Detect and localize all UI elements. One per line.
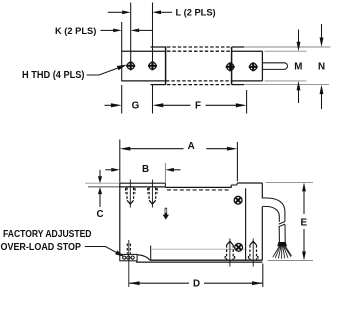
svg-text:H THD (4 PLS): H THD (4 PLS): [22, 70, 85, 81]
svg-text:FACTORY ADJUSTED: FACTORY ADJUSTED: [3, 229, 92, 240]
svg-text:E: E: [301, 217, 308, 228]
svg-text:C: C: [96, 209, 103, 220]
svg-text:D: D: [193, 279, 200, 290]
svg-text:B: B: [142, 164, 149, 175]
svg-text:M: M: [294, 62, 302, 73]
svg-text:N: N: [318, 62, 325, 73]
svg-text:G: G: [132, 101, 140, 112]
svg-text:OVER-LOAD STOP: OVER-LOAD STOP: [1, 242, 82, 253]
svg-text:A: A: [188, 141, 195, 152]
svg-text:K (2 PLS): K (2 PLS): [55, 26, 96, 36]
svg-text:F: F: [195, 101, 201, 112]
svg-text:L (2 PLS): L (2 PLS): [176, 8, 216, 18]
